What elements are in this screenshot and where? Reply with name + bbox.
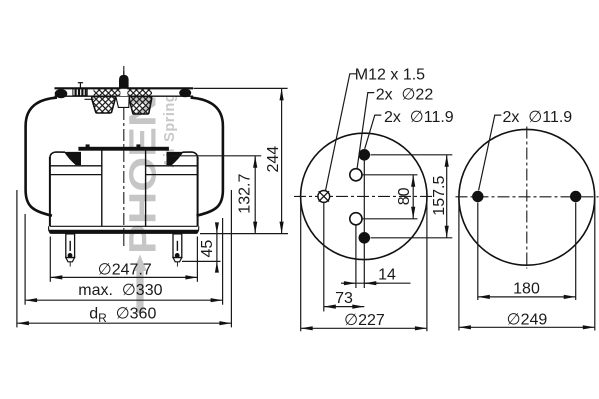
stud hole left [472, 191, 483, 202]
piston left lobe + wedge [49, 152, 102, 175]
dimension diameter 249 [459, 197, 595, 330]
bottom circle [459, 129, 595, 265]
top plate [55, 88, 194, 96]
svg-text:244: 244 [265, 146, 282, 173]
dashed crosshair horizontal [456, 196, 599, 198]
stud hole right [570, 191, 581, 202]
piston top plate band [78, 144, 168, 150]
dimension max diameter 330 [25, 214, 223, 305]
piston central tube [102, 147, 146, 226]
dimension diameter 247.7 [50, 237, 197, 282]
M12 hole vertical line [323, 202, 325, 311]
svg-text:157.5: 157.5 [431, 176, 448, 216]
label M12 x 1.5 [326, 66, 426, 190]
dimension 180 [478, 203, 576, 300]
extension line bottom of piston [200, 233, 288, 235]
M12 x 1.5 hole [318, 191, 330, 203]
bellows outer left wall [26, 98, 57, 216]
stud left [66, 234, 75, 267]
svg-text:∅227: ∅227 [344, 312, 385, 329]
hole 11.9 top [359, 149, 371, 161]
dimension 73 [324, 290, 365, 307]
V notch under stud [116, 97, 129, 108]
hole 22 top [350, 169, 362, 181]
air fitting [73, 83, 87, 96]
bellows outer right wall [191, 98, 223, 216]
piston walls [49, 157, 51, 226]
dashed crosshair vertical [526, 127, 528, 269]
dimension 244 [194, 88, 288, 233]
svg-text:45: 45 [199, 240, 216, 258]
centerline [123, 66, 125, 247]
label 2x diameter 11.9 [365, 109, 454, 149]
piston right lobe + wedge [146, 152, 199, 175]
dimension 80 [363, 175, 418, 219]
piston bottom plate [49, 226, 199, 234]
svg-text:max. ∅330: max. ∅330 [78, 282, 162, 299]
rubber bead trapezoid right (hatched) [129, 96, 151, 114]
svg-text:80: 80 [396, 187, 413, 205]
svg-text:2x ∅11.9: 2x ∅11.9 [503, 109, 573, 126]
stud right [173, 234, 182, 267]
hole 11.9 bottom [359, 232, 371, 244]
plate lower crimp line [85, 98, 94, 100]
svg-text:73: 73 [335, 290, 353, 307]
plate right bead [179, 89, 191, 98]
stud hole channel through plate [120, 89, 127, 96]
svg-text:14: 14 [378, 267, 396, 284]
dimension 14 [341, 267, 411, 284]
dimension 132.7 [171, 156, 261, 234]
svg-text:∅247.7: ∅247.7 [98, 262, 152, 279]
svg-text:2x ∅22: 2x ∅22 [376, 86, 434, 103]
top stud M12 [119, 71, 129, 88]
dimension 157.5 [371, 155, 453, 238]
dimension 45 [199, 222, 219, 272]
label 2x diameter 11.9 right [479, 109, 573, 191]
svg-text:M12 x 1.5: M12 x 1.5 [355, 66, 425, 83]
hole 22 bottom [350, 213, 362, 225]
rubber bead trapezoid left (hatched) [92, 96, 115, 113]
dimension dR diameter 360 [17, 190, 232, 327]
horizontal center dashed [294, 195, 434, 197]
plate circle [301, 133, 427, 259]
svg-text:2x ∅11.9: 2x ∅11.9 [384, 109, 454, 126]
plate left bead [55, 89, 68, 98]
dimension diameter 227 [301, 196, 427, 331]
watermark arrow [133, 255, 147, 314]
extension line stud tip [182, 260, 221, 262]
vertical line through holes [363, 149, 365, 288]
svg-text:∅249: ∅249 [507, 312, 548, 329]
label 2x diameter 22 [357, 86, 433, 168]
svg-text:180: 180 [513, 280, 540, 297]
svg-text:132.7: 132.7 [237, 174, 254, 214]
